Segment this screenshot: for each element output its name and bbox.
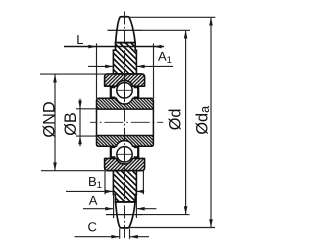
bottom sprocket tooth [116, 202, 136, 228]
arrow A left [105, 207, 113, 211]
seal bottom left [111, 147, 116, 157]
bearing outer ring bottom section [105, 158, 145, 170]
vertical centerline [124, 12, 126, 239]
dim line B [79, 99, 81, 147]
dim line B1 right [137, 190, 145, 192]
ext line A right [135, 195, 137, 218]
svg-text:A: A [89, 193, 98, 208]
dim line B1 left [66, 190, 113, 192]
ball top [117, 83, 132, 98]
seal top left [111, 87, 116, 97]
arrow C left [111, 235, 119, 239]
dim line C right [130, 236, 149, 238]
arrow B bottom [78, 136, 82, 144]
dim line da [210, 18, 212, 228]
ext line C left [119, 229, 121, 239]
arrow A1 right [136, 65, 144, 69]
dim line A right [137, 208, 156, 210]
arrow A right [137, 207, 145, 211]
dim line L [64, 46, 164, 48]
dim line A1 right [137, 65, 173, 67]
arrow ND top [53, 74, 57, 82]
arrow A1 left [105, 65, 113, 69]
arrow B1 left [105, 190, 113, 194]
pitch line top tooth [108, 29, 142, 31]
ext line d bottom [106, 214, 190, 216]
svg-text:L: L [76, 32, 83, 47]
ext line da top [129, 16, 216, 18]
ext line da bottom [130, 227, 216, 229]
arrow L right [154, 45, 162, 49]
pitch line bottom tooth [106, 214, 142, 216]
ext line ND bottom [41, 170, 105, 172]
ext line B1 left [104, 171, 106, 194]
ext line B1 right [142, 171, 144, 194]
ext line B bottom [76, 135, 97, 137]
arrow ND bottom [53, 162, 57, 170]
arrow B top [78, 101, 82, 109]
bearing inner ring top section [97, 98, 154, 109]
seal top right [134, 87, 139, 97]
arrow d top [184, 30, 188, 38]
arrow da top [209, 17, 213, 25]
svg-text:Ød: Ød [166, 109, 184, 131]
ball bottom [117, 147, 132, 162]
svg-text:ØND: ØND [40, 101, 58, 137]
svg-text:C: C [87, 219, 96, 234]
sprocket plate and hub section bottom [113, 171, 136, 202]
ext line ND top [40, 73, 113, 75]
seal bottom right [134, 147, 139, 157]
bearing inner ring bottom section [97, 136, 154, 147]
top sprocket tooth [116, 17, 136, 43]
bearing outer ring top section [105, 74, 145, 86]
dim line d [185, 31, 187, 215]
arrow L left [88, 45, 96, 49]
dim line A left [83, 208, 113, 210]
ext line B top [76, 108, 97, 110]
sprocket plate and hub section top [113, 43, 136, 74]
inner ring right face through bore [152, 109, 154, 136]
svg-text:ØB: ØB [62, 112, 80, 136]
dim line C left [75, 236, 120, 238]
arrow C right [130, 235, 138, 239]
inner ring left face through bore [96, 109, 98, 136]
arrow da bottom [209, 219, 213, 227]
ext line L right [153, 43, 155, 98]
ext line C right [129, 229, 131, 239]
ext line A left [113, 195, 115, 218]
arrow d bottom [184, 206, 188, 214]
ext line L left [96, 43, 98, 98]
dim line A1 left [88, 65, 113, 67]
horizontal centerline [90, 121, 163, 123]
arrow B1 right [136, 190, 144, 194]
dim line ND [54, 75, 56, 171]
ext line d top [108, 29, 190, 31]
